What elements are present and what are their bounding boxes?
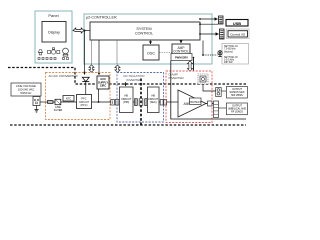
svg-text:CONTROL: CONTROL (135, 32, 153, 36)
wire amp out (206, 103, 214, 105)
wire (221, 90, 226, 92)
wire to diode (84, 31, 86, 75)
node A junction (84, 30, 86, 32)
usb connector (219, 16, 224, 24)
isolation barrier (140, 79, 142, 127)
notes box (222, 44, 249, 65)
output box 2 (226, 103, 247, 115)
pfc circuit box (77, 95, 92, 109)
amp triangle (178, 90, 206, 117)
svg-text:(PRI): (PRI) (123, 101, 129, 104)
usb box (226, 20, 248, 27)
wire sense to output (203, 84, 216, 91)
svg-text:OSC: OSC (147, 52, 155, 56)
hb circuit pri box (120, 87, 134, 113)
key squares row (38, 58, 69, 60)
Panel box (35, 11, 72, 63)
diode D1 (82, 77, 89, 81)
hb circuit sec box (148, 87, 160, 113)
wire osc to amp control (159, 52, 172, 54)
wire feedback (171, 61, 246, 120)
connector amp out (208, 101, 213, 106)
line voltage box (11, 83, 41, 96)
wire aux to bus (98, 89, 100, 102)
svg-text:500 VRMS: 500 VRMS (231, 94, 243, 97)
wire control io (199, 33, 201, 35)
svg-text:USB: USB (233, 21, 241, 26)
wire (180, 40, 182, 43)
wire mains (40, 101, 48, 103)
Display box (42, 22, 66, 43)
gate drive sense box (198, 74, 208, 84)
wire (116, 40, 118, 64)
inrush box (63, 96, 74, 102)
connector pair isolation-amp (160, 100, 163, 106)
system control box (90, 22, 200, 40)
knob icon (63, 48, 69, 56)
pwm feedback junction (193, 57, 195, 59)
connector pair acdc-isolation (111, 100, 115, 106)
svg-text:CONTROL: CONTROL (173, 50, 189, 54)
output socket connector (216, 88, 222, 97)
ac-dc converter box (46, 73, 111, 120)
svg-text:SYSTEM: SYSTEM (136, 27, 151, 31)
wire (92, 101, 111, 103)
control io connector (220, 29, 225, 39)
svg-text:FILTER: FILTER (54, 109, 63, 112)
wire (133, 101, 135, 103)
OSC box (143, 45, 159, 60)
wire (61, 101, 78, 103)
svg-text:NTC: NTC (66, 98, 71, 101)
svg-text:50/60 Hz: 50/60 Hz (20, 91, 32, 95)
enclosure boundary bottom (10, 124, 246, 126)
wire (159, 101, 160, 103)
svg-text:CIRC: CIRC (100, 84, 106, 88)
wire (118, 101, 121, 103)
double arrow to isolation (115, 65, 120, 73)
wire (85, 82, 87, 95)
double arrow panel-controller (73, 28, 84, 33)
pwm drive box (171, 54, 192, 61)
line filter (55, 99, 61, 104)
wire (219, 107, 227, 109)
protect box (190, 98, 202, 105)
wire (167, 101, 178, 103)
enclosure boundary top (8, 68, 246, 85)
svg-text:Panel: Panel (48, 13, 58, 18)
svg-text:RF LEADS: RF LEADS (231, 110, 243, 113)
wire to trimmer (202, 41, 204, 56)
ground (36, 106, 38, 110)
svg-text:Control I/O: Control I/O (230, 33, 246, 37)
svg-text:PWM DRV: PWM DRV (175, 56, 188, 60)
microcontroller box U1 (84, 14, 212, 64)
wire (85, 30, 91, 32)
output terminal block (214, 101, 219, 118)
svg-text:(PFC): (PFC) (81, 103, 88, 107)
buttons icon (48, 48, 60, 54)
svg-text:PROTECT: PROTECT (189, 101, 201, 104)
dc isolation inverter box (117, 73, 164, 123)
buzzer icon (38, 50, 42, 55)
trimmer icon (218, 51, 222, 57)
svg-text:µ2-CONTROLLER: µ2-CONTROLLER (86, 16, 117, 20)
control io box (227, 29, 250, 39)
d-amp inverter box (166, 71, 212, 123)
svg-text:(factory): (factory) (224, 50, 233, 53)
output box 1 (226, 87, 247, 99)
double arrow to acdc (89, 65, 94, 72)
wire (193, 58, 195, 72)
svg-text:AC-DC CONVERTER: AC-DC CONVERTER (49, 74, 79, 78)
wire (91, 40, 93, 64)
transformer T1 (135, 98, 148, 106)
svg-text:DIP SW: DIP SW (224, 61, 233, 64)
svg-text:INVERTER: INVERTER (126, 78, 142, 82)
fuse F1 (48, 101, 54, 104)
wire to aux supply (98, 40, 100, 75)
amp control box (172, 44, 190, 57)
wire usb (199, 18, 201, 20)
wire into pri (125, 82, 127, 86)
double arrow to amp (187, 61, 192, 71)
aux supply box (97, 76, 109, 89)
wire (53, 101, 55, 103)
ac inlet connector (33, 97, 40, 106)
svg-text:(SEC): (SEC) (150, 101, 157, 104)
wire (150, 40, 152, 44)
svg-text:Display: Display (48, 31, 60, 35)
